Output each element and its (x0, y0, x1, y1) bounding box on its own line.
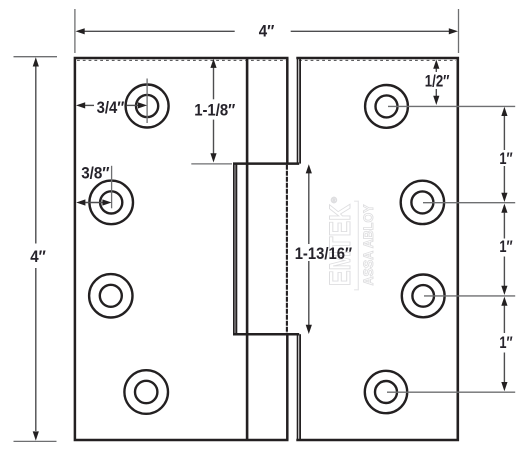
svg-text:®: ® (331, 196, 337, 205)
1/2in dimension (433, 60, 439, 105)
1-1/8in extension line (191, 163, 232, 165)
svg-text:1/2″: 1/2″ (425, 72, 450, 91)
leader hole R4 (387, 391, 515, 393)
svg-text:1″: 1″ (499, 333, 512, 352)
left 4in dimension line (33, 57, 39, 440)
svg-text:4″: 4″ (30, 247, 46, 266)
svg-text:1-1/8″: 1-1/8″ (194, 101, 235, 120)
top 4in dimension line (76, 28, 459, 34)
top edge artifact left leaf (77, 59, 286, 61)
hole L2 (89, 181, 133, 225)
middle knuckle top line (233, 162, 299, 165)
left leaf outline (75, 58, 289, 440)
hole L3 (89, 274, 132, 317)
svg-text:1-13/16″: 1-13/16″ (295, 244, 352, 263)
1-1/8in dimension (210, 59, 216, 163)
leader hole R1 (388, 105, 515, 107)
hole L4 (124, 370, 168, 414)
svg-text:1″: 1″ (499, 237, 512, 256)
3/8in dimension (76, 199, 111, 205)
barrel edge top solid (286, 58, 289, 164)
top 4in extension line left (74, 9, 76, 53)
1in dimension A (501, 107, 507, 202)
hole L1 crosshair (146, 79, 148, 124)
top edge artifact right leaf (299, 59, 456, 61)
right leaf left edge double line upper (298, 58, 301, 164)
watermark EMTEK logo (324, 196, 376, 290)
svg-text:1″: 1″ (499, 149, 512, 168)
1in dimension B (501, 204, 507, 295)
left 4in tick top (14, 56, 58, 58)
hole R1 (365, 85, 408, 128)
svg-text:3/8″: 3/8″ (81, 164, 109, 183)
barrel edge bottom solid (286, 334, 289, 440)
hole R4 (365, 371, 407, 413)
3/4in dimension (76, 102, 147, 108)
middle knuckle left double line (233, 164, 235, 335)
1-13/16in dimension (306, 164, 312, 334)
leader hole R3 (424, 295, 515, 297)
hole R3 (402, 275, 445, 318)
middle knuckle bottom line (233, 333, 299, 336)
hole L1 (126, 85, 169, 128)
left leaf fold line (246, 58, 249, 440)
1in dimension C (501, 297, 507, 392)
svg-text:ASSA ABLOY: ASSA ABLOY (360, 204, 376, 286)
svg-text:3/4″: 3/4″ (97, 98, 125, 117)
right leaf left edge double line lower (298, 334, 301, 440)
left 4in tick bottom (14, 440, 57, 442)
barrel edge hidden dashed (286, 165, 288, 334)
hole R2 (401, 181, 444, 224)
right leaf outline (296, 58, 458, 440)
svg-text:4″: 4″ (259, 21, 275, 40)
top 4in extension line right (458, 9, 460, 53)
leader hole R2 (423, 202, 515, 204)
hole L2 crosshair (111, 166, 113, 209)
